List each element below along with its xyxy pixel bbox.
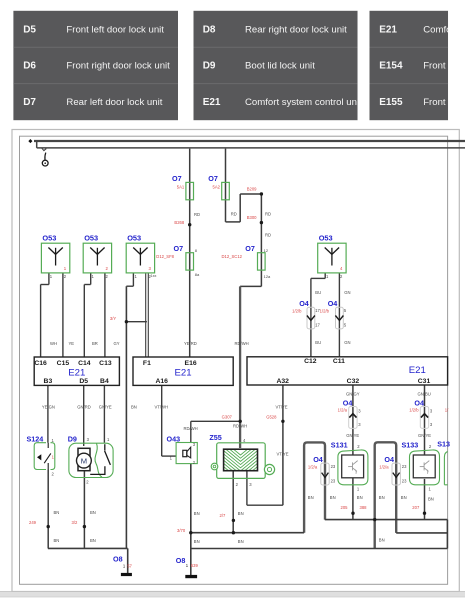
svg-text:1/2/b: 1/2/b [292,309,302,314]
svg-text:O8: O8 [113,555,123,564]
svg-text:B4: B4 [100,378,109,385]
svg-text:E16: E16 [185,360,197,367]
svg-text:5A2: 5A2 [213,185,221,190]
svg-text:C16: C16 [34,360,47,367]
svg-text:D5: D5 [79,378,88,385]
svg-text:BN: BN [54,510,60,515]
svg-text:GN: GN [344,340,350,345]
svg-text:S131: S131 [331,440,348,449]
svg-text:GN/YE: GN/YE [99,404,112,409]
svg-text:O7: O7 [174,244,184,253]
svg-text:GN/RD: GN/RD [77,404,91,409]
svg-text:C32: C32 [347,378,360,385]
svg-text:639: 639 [191,563,199,568]
svg-text:O43: O43 [167,435,181,444]
svg-text:C13: C13 [99,360,112,367]
svg-text:O53: O53 [127,233,141,242]
svg-text:5A1: 5A1 [177,185,185,190]
svg-text:Rear left door lock unit: Rear left door lock unit [66,97,162,108]
svg-text:C15: C15 [57,360,70,367]
svg-text:1/2/a: 1/2/a [338,407,348,412]
svg-text:23: 23 [331,478,336,483]
svg-text:D6: D6 [23,61,36,72]
svg-text:YE/RD: YE/RD [184,341,197,346]
svg-text:O53: O53 [319,233,333,242]
svg-text:O53: O53 [84,233,98,242]
svg-text:BN: BN [357,495,363,500]
svg-text:BN: BN [379,495,385,500]
svg-text:8a: 8a [195,272,200,277]
svg-text:BN: BN [194,511,200,516]
svg-text:D9: D9 [68,435,77,444]
svg-text:M: M [81,457,87,466]
svg-text:RD/WH: RD/WH [184,426,198,431]
svg-text:B209: B209 [247,187,257,192]
svg-text:D7: D7 [23,97,36,108]
svg-text:O4: O4 [313,455,323,464]
svg-text:GN/BU: GN/BU [418,391,431,396]
svg-text:YE: YE [69,341,75,346]
svg-text:O7: O7 [245,244,255,253]
svg-text:VT/WH: VT/WH [155,404,169,409]
svg-text:388: 388 [360,505,368,510]
svg-text:Front left door lock unit: Front left door lock unit [66,25,164,36]
svg-text:S124: S124 [27,435,44,444]
svg-text:E21: E21 [379,25,397,36]
svg-text:249: 249 [29,520,37,525]
svg-text:3/70: 3/70 [177,528,186,533]
svg-text:12a: 12a [264,274,271,279]
svg-text:2/7: 2/7 [220,513,226,518]
svg-text:BN: BN [54,538,60,543]
svg-text:O8: O8 [176,556,186,565]
svg-text:B3: B3 [44,378,53,385]
svg-text:D5: D5 [23,25,36,36]
svg-text:S133: S133 [402,440,419,449]
svg-text:1/2/b: 1/2/b [409,407,419,412]
svg-text:Rear right door lock unit: Rear right door lock unit [245,25,347,36]
svg-text:RD: RD [231,212,237,217]
svg-text:G307: G307 [222,414,233,419]
svg-text:VT/YE: VT/YE [277,451,289,456]
svg-text:BN: BN [308,495,314,500]
svg-text:A32: A32 [276,378,289,385]
svg-text:VT/YE: VT/YE [276,404,288,409]
svg-text:GN: GN [344,290,350,295]
svg-text:G528: G528 [266,415,277,420]
svg-text:RD: RD [265,212,271,217]
svg-text:O4: O4 [299,299,309,308]
svg-text:B268: B268 [174,220,184,225]
svg-text:Comfort system control unit: Comfort system control unit [245,97,362,108]
svg-text:BN: BN [401,495,407,500]
svg-text:E155: E155 [379,97,403,108]
svg-text:BU: BU [315,340,321,345]
svg-text:Front right door lock unit: Front right door lock unit [66,61,170,72]
svg-text:F1: F1 [143,360,151,367]
svg-text:C11: C11 [333,358,345,365]
svg-text:GN/YE: GN/YE [418,433,431,438]
svg-text:1/2/a: 1/2/a [308,464,318,469]
svg-text:D12_SF8: D12_SF8 [156,254,174,259]
svg-text:O7: O7 [172,174,182,183]
svg-text:E154: E154 [379,61,403,72]
svg-text:23: 23 [402,464,407,469]
svg-text:D9: D9 [203,61,216,72]
svg-text:12: 12 [264,248,269,253]
svg-text:BN: BN [428,497,434,502]
svg-text:O4: O4 [343,399,353,408]
svg-text:RD/WH: RD/WH [235,341,249,346]
svg-text:23: 23 [331,464,336,469]
svg-text:A16: A16 [155,378,168,385]
svg-text:YE/GN: YE/GN [42,404,55,409]
svg-text:E21: E21 [203,97,221,108]
svg-text:D8: D8 [203,25,216,36]
svg-text:23: 23 [402,478,407,483]
svg-text:D12_SC12: D12_SC12 [222,254,243,259]
svg-text:RD: RD [194,212,200,217]
svg-text:BR: BR [92,341,98,346]
svg-text:BN: BN [90,538,96,543]
svg-text:BN: BN [90,510,96,515]
svg-text:C14: C14 [78,360,91,367]
svg-text:BN: BN [238,539,244,544]
svg-text:1/2/b: 1/2/b [320,309,330,314]
svg-text:BN: BN [330,495,336,500]
svg-text:E21: E21 [68,367,85,378]
svg-text:O53: O53 [42,233,56,242]
svg-text:GN/GY: GN/GY [346,391,360,396]
svg-text:B300: B300 [247,215,257,220]
svg-text:1xx: 1xx [151,274,157,278]
svg-text:Z55: Z55 [209,433,221,442]
svg-text:O4: O4 [384,455,394,464]
svg-text:207: 207 [412,505,420,510]
svg-text:GY: GY [114,341,120,346]
svg-text:1/2/a: 1/2/a [379,464,389,469]
svg-text:Boot lid lock unit: Boot lid lock unit [245,61,315,72]
svg-text:BN: BN [131,404,137,409]
svg-text:C31: C31 [418,378,431,385]
svg-text:BN: BN [194,539,200,544]
svg-text:BN: BN [238,511,244,516]
svg-text:BN: BN [379,538,385,543]
svg-text:RD: RD [265,233,271,238]
svg-text:GN/YE: GN/YE [346,433,359,438]
svg-text:O4: O4 [414,399,424,408]
svg-text:E21: E21 [409,365,426,376]
svg-text:3/Y: 3/Y [110,316,116,321]
svg-text:17: 17 [315,323,320,328]
svg-text:57: 57 [127,563,132,568]
svg-text:O7: O7 [208,174,218,183]
svg-text:S13: S13 [437,440,450,449]
svg-text:O4: O4 [328,299,338,308]
svg-text:E21: E21 [174,367,191,378]
svg-text:BU: BU [315,290,321,295]
svg-text:C12: C12 [304,358,317,365]
svg-text:3/2: 3/2 [72,520,78,525]
svg-text:WH: WH [50,341,57,346]
svg-text:RD/WH: RD/WH [233,424,247,429]
svg-text:205: 205 [341,505,349,510]
